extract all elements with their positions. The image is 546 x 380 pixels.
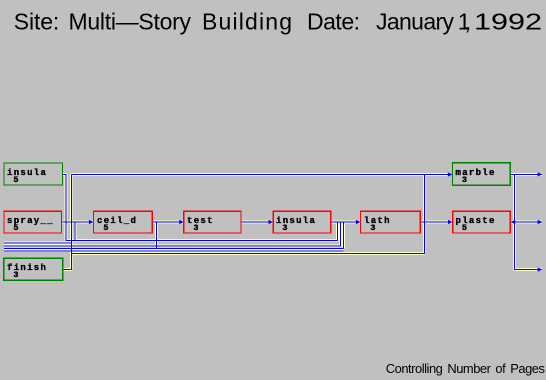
wire to marble (long horizontal) — [71, 174, 448, 176]
arrow out right middle — [538, 220, 543, 224]
arrow into test — [179, 220, 184, 224]
wire bundle y249 — [4, 222, 343, 249]
arrow out right bottom — [538, 268, 543, 272]
wire spray_ to ceil_d — [62, 221, 94, 223]
wire insula to lath — [331, 221, 361, 223]
wire plaste out — [510, 221, 541, 223]
arrow into marble — [448, 172, 453, 176]
node insula (3) — [273, 211, 331, 233]
arrow into plaste right edge (left pointing) — [511, 220, 516, 224]
arrow out right top — [538, 172, 543, 176]
svg-text:1992: 1992 — [474, 9, 542, 34]
svg-text:3: 3 — [456, 175, 469, 185]
wire vertical x514 — [513, 174, 515, 269]
svg-text:3: 3 — [276, 223, 289, 233]
wire finish stub — [63, 268, 72, 270]
wire lath to plaste — [420, 221, 452, 223]
wire bundle y251 — [4, 250, 343, 252]
wire bundle y243 — [4, 242, 71, 244]
svg-text:5: 5 — [456, 223, 469, 233]
wire insula down-stub — [63, 174, 67, 240]
svg-text:5: 5 — [97, 223, 110, 233]
arrowheads — [89, 172, 542, 271]
node lath — [361, 211, 421, 233]
wire bundle y246 — [4, 222, 341, 246]
wire bottom-right stub — [514, 269, 541, 271]
svg-text:5: 5 — [7, 175, 20, 185]
svg-text:Controlling Number of Pages: Controlling Number of Pages — [386, 361, 545, 376]
wires (blue) — [4, 174, 542, 269]
node plaste — [453, 211, 511, 233]
wire bundle y253 — [71, 252, 424, 254]
svg-text:5: 5 — [7, 223, 20, 233]
wire ceil_d to test — [152, 221, 183, 223]
node ceil_d — [94, 211, 153, 233]
node marble — [453, 163, 511, 186]
svg-text:Site:Multi—StoryBuildingDate:J: Site:Multi—StoryBuildingDate:January1, — [14, 9, 471, 35]
wire vertical x71 — [70, 175, 72, 270]
arrow into insula — [269, 220, 274, 224]
arrow into plaste — [448, 220, 453, 224]
svg-text:3: 3 — [364, 223, 377, 233]
arrow into ceil_d — [89, 220, 94, 224]
node test — [184, 211, 241, 233]
arrow into lath — [356, 220, 361, 224]
wire spray branch down — [74, 222, 76, 240]
node insula (5) top-left — [4, 163, 63, 185]
wire vertical x424 — [423, 175, 425, 254]
wire ceil_d branch down — [155, 222, 157, 249]
wire halo glow — [4, 174, 542, 269]
svg-text:3: 3 — [187, 223, 200, 233]
node spray_ — [4, 211, 62, 233]
wire test to insula — [241, 221, 273, 223]
wire marble out — [510, 173, 542, 175]
node finish — [4, 258, 63, 280]
wire bundle y240 — [66, 222, 338, 240]
svg-text:3: 3 — [7, 270, 20, 280]
